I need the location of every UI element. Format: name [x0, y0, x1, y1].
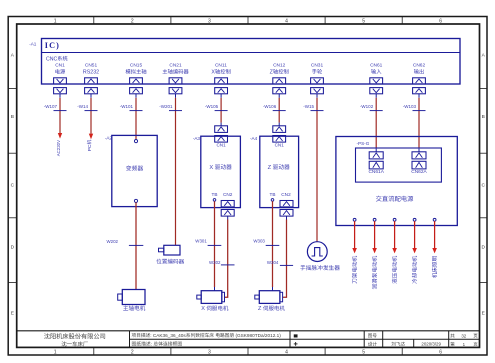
svg-text:W303: W303 — [253, 239, 265, 244]
connector CN61 输入 — [370, 63, 383, 98]
wire W103 — [403, 98, 426, 149]
wire W202 (inverter to spindle motor) — [107, 203, 144, 290]
svg-text:Z: Z — [268, 165, 273, 171]
svg-text:TB: TB — [269, 192, 275, 197]
wire W106 — [263, 98, 286, 123]
svg-text:CN1: CN1 — [275, 142, 285, 147]
svg-text:X: X — [201, 306, 206, 312]
svg-text:Z: Z — [258, 306, 263, 312]
wire W301 (X drive TB to X servo motor) — [195, 201, 221, 291]
wire W201 — [159, 98, 182, 246]
PSU output feed 冷却电动机 — [412, 218, 417, 283]
svg-text:-A4: -A4 — [250, 136, 258, 141]
svg-text:CNC: CNC — [46, 56, 57, 62]
svg-text:CN2: CN2 — [223, 192, 233, 197]
svg-text:32: 32 — [461, 333, 466, 338]
svg-text:CN51: CN51 — [85, 63, 98, 69]
connector CN15 模拟主轴 — [126, 63, 147, 98]
X drive connector CN2 — [221, 192, 234, 219]
svg-text:AC220V: AC220V — [56, 140, 61, 156]
svg-text:4: 4 — [285, 18, 288, 24]
svg-text:-W201: -W201 — [159, 104, 173, 109]
svg-text:(GSK980TDa/2012.1): (GSK980TDa/2012.1) — [234, 333, 281, 338]
node AC220V mains input — [56, 133, 62, 156]
PSU output feed 机床照明 — [432, 218, 437, 278]
Z servo motor Z伺服电机 — [255, 291, 285, 313]
svg-text:CN21: CN21 — [169, 63, 182, 69]
PSU connector CN61A — [368, 149, 384, 175]
PSU output feed 润滑泵电动机 — [372, 218, 377, 289]
svg-text:CN1: CN1 — [55, 63, 65, 69]
svg-text:CN61: CN61 — [370, 63, 383, 69]
wire W302 (X drive CN2 encoder feedback) — [209, 220, 234, 298]
svg-text:4: 4 — [285, 349, 288, 355]
svg-text:CN62: CN62 — [413, 63, 426, 69]
svg-text:C: C — [481, 183, 485, 189]
svg-text:CN2: CN2 — [281, 192, 291, 197]
handwheel pulse generator 手摇脉冲发生器 — [300, 242, 339, 271]
svg-text:-PS-G: -PS-G — [357, 141, 370, 146]
connector CN1 电源 — [54, 63, 67, 98]
X drive connector CN1 — [215, 123, 228, 148]
connector CN21 主轴编码器 — [163, 63, 189, 98]
svg-text:5: 5 — [362, 349, 365, 355]
X drive terminal TB — [211, 192, 217, 201]
svg-text:CN12: CN12 — [273, 63, 286, 69]
connector CN31 手轮 — [311, 63, 324, 98]
svg-text:CN61A: CN61A — [368, 169, 384, 175]
svg-text:5: 5 — [362, 18, 365, 24]
svg-text:-W14: -W14 — [77, 104, 88, 109]
svg-text:B: B — [11, 114, 14, 120]
svg-text:TB: TB — [211, 192, 217, 197]
svg-text:D: D — [11, 245, 15, 251]
svg-text:3: 3 — [208, 18, 211, 24]
svg-text:W301: W301 — [195, 239, 207, 244]
svg-text:RS232: RS232 — [83, 70, 99, 76]
wire W304 (Z drive CN2 encoder feedback) — [267, 220, 293, 298]
Z drive terminal TB — [269, 192, 275, 201]
svg-text:E: E — [11, 311, 14, 317]
svg-text:3: 3 — [208, 349, 211, 355]
wire W107 — [44, 98, 67, 133]
svg-text:1: 1 — [54, 349, 57, 355]
svg-text:-W107: -W107 — [44, 104, 58, 109]
svg-text:W202: W202 — [107, 239, 119, 244]
position encoder 位置编码器 — [156, 245, 184, 264]
X axis drive -A3 — [193, 136, 241, 207]
connector CN51 RS232 — [83, 63, 99, 98]
PSU connector CN62A — [411, 149, 427, 175]
svg-text:CN62A: CN62A — [411, 169, 427, 175]
Z drive connector CN1 — [273, 123, 286, 148]
svg-text:-W101: -W101 — [120, 104, 134, 109]
svg-text:2: 2 — [131, 349, 134, 355]
node PC机 (RS232 host) — [87, 134, 93, 152]
svg-text:CN1: CN1 — [216, 142, 226, 147]
wire W101 — [120, 98, 143, 140]
svg-text:-W106: -W106 — [263, 104, 277, 109]
wire W14 — [77, 98, 97, 134]
wire W15 — [303, 98, 323, 242]
svg-text:6: 6 — [439, 349, 442, 355]
svg-text:-A3: -A3 — [193, 136, 201, 141]
svg-text:-A1: -A1 — [29, 41, 37, 46]
wire W102 — [360, 98, 383, 149]
svg-text:1: 1 — [54, 18, 57, 24]
spindle motor 主轴电机 — [118, 290, 145, 311]
PSU output feed 刀架电动机 — [352, 218, 357, 283]
connector CN11 X轴控制 — [211, 63, 230, 98]
svg-text:-W102: -W102 — [360, 104, 374, 109]
X servo motor X伺服电机 — [197, 291, 228, 313]
svg-text:6: 6 — [439, 18, 442, 24]
svg-text:W302: W302 — [209, 260, 221, 265]
svg-text:IC): IC) — [45, 41, 60, 50]
svg-text:-W105: -W105 — [205, 104, 219, 109]
svg-text:D: D — [481, 245, 485, 251]
wire W303 (Z drive TB to Z servo motor) — [253, 201, 279, 291]
svg-text::: : — [151, 342, 154, 347]
wire W105 — [205, 98, 228, 123]
svg-text:2: 2 — [131, 18, 134, 24]
svg-text:-A2: -A2 — [105, 135, 113, 140]
svg-text:: CAK36_36_40s: : CAK36_36_40s — [150, 333, 186, 338]
svg-text:-W15: -W15 — [303, 104, 314, 109]
svg-text:E: E — [482, 311, 485, 317]
svg-text:PC: PC — [87, 144, 93, 151]
svg-text:C: C — [11, 183, 15, 189]
svg-text:CN31: CN31 — [311, 63, 324, 69]
svg-text:B: B — [482, 114, 485, 120]
svg-text:CN15: CN15 — [130, 63, 143, 69]
svg-text:-W103: -W103 — [403, 104, 417, 109]
CNC system unit -A1 — [29, 39, 460, 85]
svg-text:CN11: CN11 — [215, 63, 227, 69]
AC/DC power distribution unit -PS-G 交直流配电源 — [336, 137, 457, 226]
connector CN62 输出 — [413, 63, 426, 98]
PSU output feed 液压电动机 — [392, 218, 397, 283]
svg-text:W304: W304 — [267, 260, 279, 265]
Z drive connector CN2 — [280, 192, 293, 219]
svg-text:X: X — [211, 70, 215, 76]
inverter -A2 变频器 — [105, 135, 157, 206]
Z axis drive -A4 — [250, 136, 299, 207]
svg-text:X: X — [209, 165, 214, 171]
svg-text:2020/3/29: 2020/3/29 — [421, 341, 441, 346]
title block — [17, 331, 480, 348]
connector CN12 Z轴控制 — [270, 63, 289, 98]
